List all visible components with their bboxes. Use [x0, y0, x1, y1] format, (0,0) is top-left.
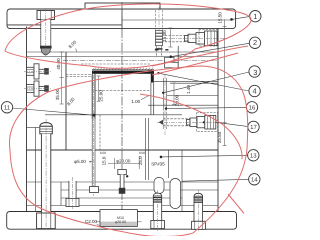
ejector plate line y190 — [61, 189, 218, 191]
svg-text:35.50: 35.50 — [217, 131, 222, 143]
bolt B5 bottom right 1 — [151, 190, 165, 231]
hidden line dashdot y60 — [63, 60, 218, 62]
mold centerline — [121, 2, 123, 232]
svg-text:8.00: 8.00 — [100, 151, 106, 155]
bolt B6 bottom right 2 — [192, 190, 206, 231]
svg-text:4: 4 — [253, 87, 257, 96]
top clamp plate — [7, 9, 236, 29]
bolt B1 top-left vertical cap screw — [37, 8, 55, 57]
ejector plate line y198 — [61, 197, 182, 199]
top plate left counterbore line — [7, 24, 122, 26]
plate line y105.2 right — [148, 104, 218, 106]
plate band y83.2 right — [170, 82, 218, 84]
step vertical x35.5 — [35, 128, 37, 212]
product part heavy section — [92, 68, 154, 83]
ejector pin center-left — [90, 68, 99, 196]
svg-text:14: 14 — [251, 177, 258, 184]
svg-text:20.00: 20.00 — [175, 94, 180, 106]
A/B plate left edge — [26, 27, 28, 212]
stop screw S2 on centerline — [118, 170, 129, 194]
svg-text:11: 11 — [4, 105, 11, 112]
spring seat dark ticks — [155, 49, 159, 51]
hidden ejector pin 2 dashed — [163, 75, 166, 135]
pocket line y114.8 — [45, 114, 182, 116]
dimension 25.00 product depth — [97, 76, 101, 101]
bottom clamp plate — [7, 212, 237, 230]
red open stroke loop B — [140, 94, 242, 159]
plate right edge — [217, 28, 219, 212]
balloon 1 — [250, 11, 261, 22]
spring hidden dashes below — [156, 46, 158, 57]
A plate pocket line y52 — [27, 51, 219, 53]
svg-text:φ20.00: φ20.00 — [116, 158, 131, 163]
guide edge x145.5 — [145, 118, 147, 180]
svg-text:17: 17 — [250, 124, 257, 131]
leader balloon 17 — [216, 122, 248, 126]
plate band y81.3 right — [154, 80, 218, 82]
guide edge x168.5 — [168, 150, 170, 178]
svg-text:2: 2 — [253, 38, 257, 47]
balloon 17 — [248, 121, 259, 132]
sprue puller block — [165, 46, 179, 68]
leader balloon 4 — [157, 72, 159, 74]
svg-text:25.00: 25.00 — [98, 90, 103, 102]
svg-text:SP#35: SP#35 — [151, 161, 165, 166]
red tail bottom right — [228, 194, 244, 214]
node dot leader 11 target — [93, 114, 96, 117]
top plate right seam line — [122, 19, 234, 21]
svg-text:φ20.00: φ20.00 — [115, 220, 126, 224]
leader balloon 1 — [230, 18, 233, 21]
leader balloon 14 — [182, 179, 249, 181]
leader balloon 11 — [12, 108, 94, 115]
leader balloon 16 — [165, 107, 167, 109]
balloon 11 — [1, 102, 12, 113]
svg-text:25.0: 25.0 — [138, 156, 143, 165]
balloon 14 — [249, 174, 260, 185]
hidden dash into product — [66, 74, 92, 76]
red annotation ellipse top — [5, 4, 251, 237]
balloon 3 — [249, 66, 260, 77]
svg-text:1: 1 — [253, 12, 257, 21]
product hatch ticks — [94, 68, 153, 70]
spring plug S1 hidden hole — [156, 7, 163, 49]
top plate divider — [121, 9, 123, 29]
bolt B3 left horizontal screw lower — [24, 81, 51, 96]
dimension 20.00 — [172, 83, 176, 105]
dimension 35.00 — [60, 78, 64, 105]
plate line y150 — [27, 149, 219, 151]
svg-text:13: 13 — [250, 153, 257, 160]
svg-text:16: 16 — [249, 105, 256, 112]
balloon 2 — [249, 37, 260, 48]
svg-text:φ5.00: φ5.00 — [74, 159, 86, 164]
dims around stop screw — [89, 156, 139, 169]
support pillar rod bottom-left — [37, 119, 56, 231]
balloon 13 — [248, 150, 259, 161]
return pin pocket slot 2 — [170, 179, 181, 209]
hidden pin hole dashed x100 — [99, 115, 101, 150]
return pin pocket slot 1 — [154, 178, 164, 194]
red stroke mid bundle 2 — [152, 53, 238, 75]
product left wall — [92, 74, 95, 77]
plate line y95.5 right — [167, 95, 218, 97]
red stroke mid bundle 1 — [152, 46, 248, 66]
red annotation big ellipse bottom — [9, 66, 247, 237]
svg-text:8.00: 8.00 — [139, 151, 145, 155]
svg-text:15.0: 15.0 — [102, 156, 107, 165]
svg-text:15.50: 15.50 — [218, 12, 223, 24]
balloon 4 — [249, 85, 260, 96]
plug P2 lower right horizontal — [157, 113, 222, 132]
ejector pin head — [90, 187, 99, 193]
plug P1 upper right horizontal — [157, 30, 222, 47]
parting line — [27, 56, 219, 58]
balloon 16 — [246, 102, 257, 113]
knockout recess in bottom plate — [100, 210, 137, 227]
plate line y182 — [27, 181, 219, 183]
guide edge x148.5 — [148, 118, 150, 180]
hidden cavity line y90.5 — [95, 90, 150, 92]
svg-text:1.00: 1.00 — [131, 99, 140, 104]
leader balloon 3 — [162, 92, 164, 94]
ejector plate left edge — [60, 182, 62, 206]
dimension 15.50 top right — [223, 19, 227, 145]
bolt B2 left horizontal screw upper — [24, 64, 51, 79]
leader balloon 13 — [161, 155, 248, 157]
cavity insert edge — [65, 52, 67, 150]
product right wall thin continuation — [150, 83, 152, 115]
leader balloon 2 — [170, 55, 173, 58]
spring plug S1 — [156, 31, 163, 50]
svg-text:3: 3 — [253, 68, 257, 77]
step line left — [27, 127, 40, 129]
dimension 40.00 — [60, 52, 64, 78]
hidden line dashed y64 — [81, 63, 150, 65]
housing inner edge x182 — [181, 150, 183, 212]
svg-text:40.00: 40.00 — [56, 58, 61, 70]
ejector bolt B4 upside-down — [66, 177, 79, 209]
top raised block — [85, 3, 160, 9]
product right wall — [151, 74, 154, 83]
ejector housing bottom y205.5 — [27, 205, 219, 207]
svg-text:35.00: 35.00 — [55, 88, 60, 100]
